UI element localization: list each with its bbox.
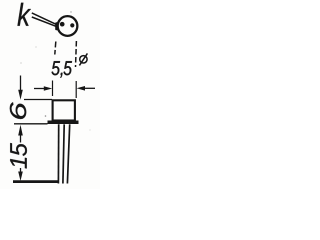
dimension text 5,5 (52, 61, 72, 77)
dimension text 6 (10, 102, 26, 119)
lead 1 (57, 124, 59, 183)
lead 3 (67, 124, 69, 183)
lead 2 (63, 124, 64, 183)
flange (48, 121, 79, 125)
diameter symbol (80, 56, 87, 63)
tick bottom of 15 dimension (13, 180, 58, 183)
dimension line left arm with arrow (34, 88, 45, 90)
can side view body (53, 100, 75, 120)
can top view outline (58, 16, 78, 36)
extension dashed line left (55, 42, 56, 55)
lead dot left (60, 22, 65, 27)
dimension line right arm with arrow (77, 86, 85, 91)
index tab (55, 22, 58, 30)
extension line left (52, 81, 54, 97)
leader line to tab (upper) (32, 13, 57, 25)
arrow down to can top (20, 76, 22, 91)
scan speckles (70, 11, 71, 12)
lead dot right (70, 23, 74, 27)
extension line right (75, 81, 77, 98)
tick top of 6 dimension (24, 99, 52, 101)
label k (tab marker) (18, 3, 32, 26)
extension dashed line right (75, 41, 78, 67)
tick bottom of 6 dimension (14, 123, 48, 125)
arrow down to lead ends (20, 168, 22, 173)
arrow up to flange bottom (18, 125, 23, 136)
leader line to tab (lower) (32, 17, 57, 27)
dimension text 15 (10, 143, 27, 168)
